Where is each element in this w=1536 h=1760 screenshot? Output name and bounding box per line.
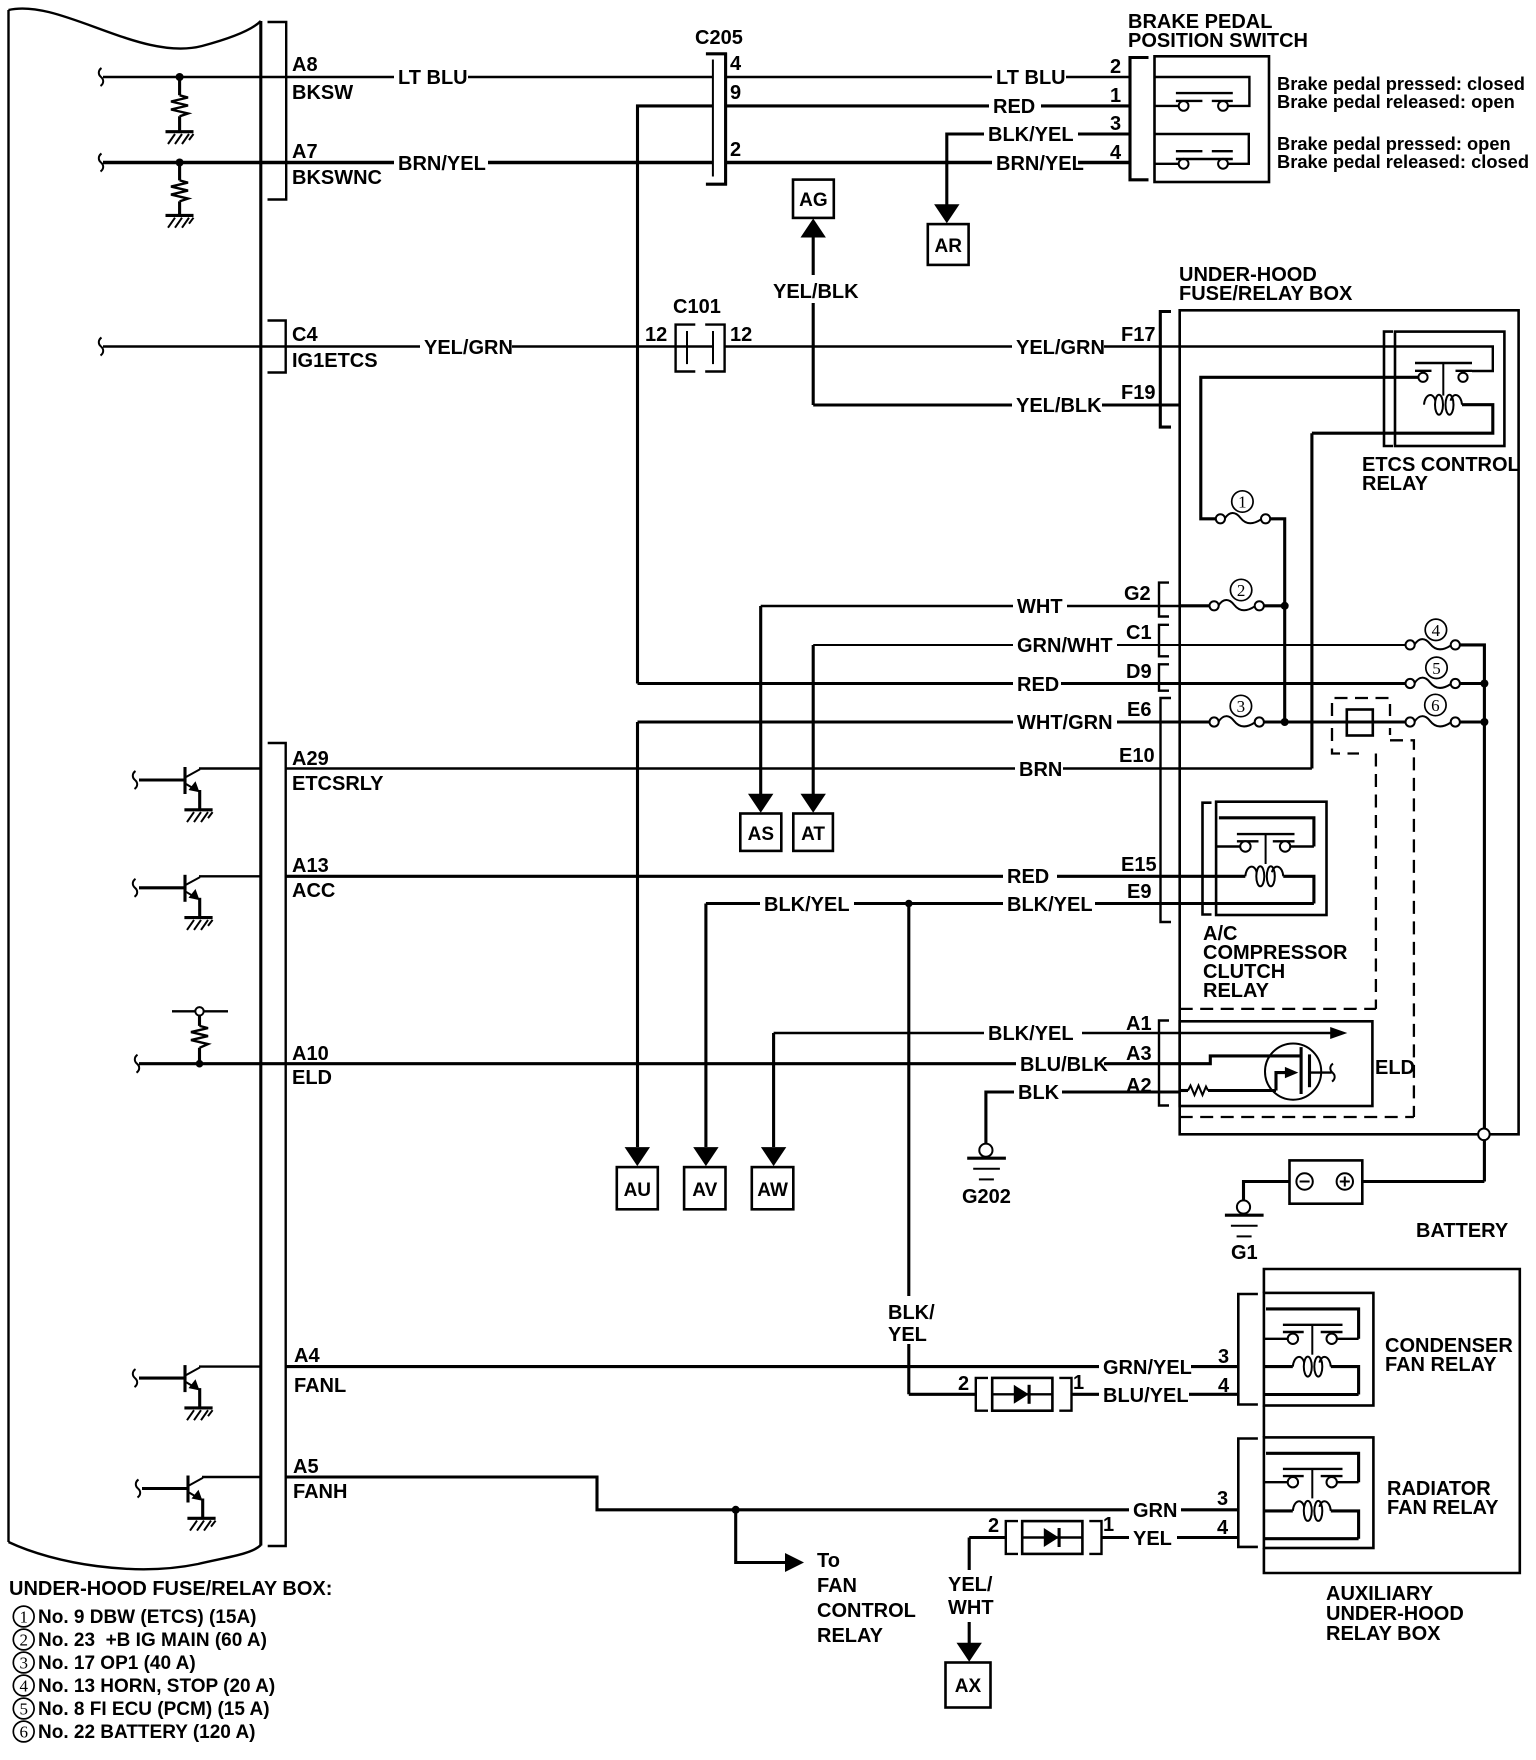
- dashed boundary right jog to ELD: [1390, 728, 1414, 1117]
- connector box AG: [793, 180, 834, 218]
- wire WHT/GRN E6 row: [638, 720, 1180, 723]
- svg-text:FAN RELAY: FAN RELAY: [1387, 1497, 1499, 1519]
- wire label YEL/GRN right: [1012, 336, 1105, 359]
- ground at A8 resistor: [166, 132, 194, 144]
- wire condenser coil right wrap to pin4: [1264, 1367, 1359, 1395]
- wire RED from C205 to brake pin 1: [727, 104, 1129, 107]
- connector C101: [676, 325, 725, 372]
- wire label BLK (A2): [1014, 1082, 1062, 1104]
- svg-text:2: 2: [988, 1515, 999, 1537]
- legend item 6: No. 22 BATTERY (120 A): [13, 1721, 255, 1743]
- condenser relay coil: [1293, 1357, 1331, 1377]
- circled 2 fuse label: [1230, 579, 1251, 600]
- wire label RED (E15): [1003, 866, 1057, 888]
- diode D2 module: [1006, 1521, 1102, 1554]
- wire label YEL/GRN left: [420, 336, 513, 359]
- wire fuse2 out: [1264, 604, 1285, 607]
- ground G202: [967, 1144, 1006, 1180]
- svg-text:2: 2: [958, 1373, 969, 1395]
- ground G1: [1225, 1200, 1264, 1236]
- svg-text:1: 1: [19, 1608, 28, 1627]
- radiator fan relay box: [1264, 1437, 1374, 1548]
- svg-text:YEL/BLK: YEL/BLK: [773, 281, 859, 303]
- wire A4 FANL to condenser relay pin3 GRN/YEL: [286, 1365, 1239, 1368]
- svg-text:12: 12: [730, 324, 752, 346]
- svg-text:AS: AS: [748, 824, 774, 845]
- svg-text:1: 1: [1103, 1514, 1114, 1536]
- wire label RED (D9): [1013, 673, 1061, 696]
- svg-text:D9: D9: [1126, 661, 1152, 683]
- wire BLK/YEL A1 row: [774, 1032, 1180, 1034]
- wire GRN/WHT C1 row: [813, 644, 1179, 646]
- wire fuse5 out: [1460, 682, 1485, 685]
- svg-text:E6: E6: [1127, 699, 1151, 721]
- circled 3 fuse label: [1230, 695, 1251, 716]
- ELD A2 wire with resistor: [1180, 1086, 1276, 1096]
- wire label YEL: [1129, 1527, 1177, 1550]
- svg-text:1: 1: [1110, 85, 1121, 107]
- wire label BLU/BLK (A3): [1016, 1053, 1108, 1076]
- svg-text:G202: G202: [962, 1186, 1011, 1208]
- wire RED C205 pin9 to D9 corner vertical: [638, 106, 713, 684]
- wire label GRN/WHT: [1013, 635, 1117, 657]
- svg-text:To: To: [817, 1550, 840, 1572]
- svg-text:F17: F17: [1121, 324, 1155, 346]
- dashed boundary A/C relay bottom: [1180, 1008, 1376, 1010]
- wire RED A13 ACC to E15: [286, 875, 1216, 878]
- wire C1 row to fuse 4: [1180, 644, 1406, 646]
- svg-text:POSITION SWITCH: POSITION SWITCH: [1128, 30, 1308, 52]
- svg-text:RELAY BOX: RELAY BOX: [1326, 1623, 1441, 1645]
- svg-text:3: 3: [1110, 113, 1121, 135]
- label CONDENSER FAN RELAY: [1385, 1335, 1513, 1376]
- junction dot fuse3/bus: [1281, 718, 1289, 726]
- svg-text:AR: AR: [934, 236, 962, 257]
- svg-text:2: 2: [730, 139, 741, 161]
- wire A10 pin stub: [139, 1062, 286, 1065]
- wire vertical to AU: [636, 722, 639, 1147]
- resistor pull-up at A7: [171, 159, 188, 215]
- svg-text:A13: A13: [292, 855, 329, 877]
- svg-text:BLK/YEL: BLK/YEL: [988, 1023, 1074, 1045]
- svg-text:No. 17 OP1 (40 A): No. 17 OP1 (40 A): [38, 1653, 196, 1674]
- wire label BRN: [1015, 758, 1063, 781]
- svg-text:A4: A4: [294, 1345, 320, 1367]
- svg-text:RELAY: RELAY: [1203, 980, 1270, 1002]
- transistor Q4 at A5: [136, 1476, 261, 1531]
- wire label YEL/ WHT: [948, 1574, 994, 1619]
- diode D1 module: [976, 1378, 1072, 1411]
- svg-text:RELAY: RELAY: [817, 1625, 884, 1647]
- radiator relay contact top bar: [1266, 1453, 1359, 1482]
- legend item 5: No. 8 FI ECU (PCM) (15 A): [13, 1698, 269, 1720]
- connector bracket F17/F19: [1160, 312, 1171, 428]
- pin tick A8: [99, 68, 103, 86]
- connector bracket A8/A7: [268, 22, 287, 200]
- wire E10 row to coil vertical: [1180, 767, 1312, 769]
- svg-text:WHT/GRN: WHT/GRN: [1017, 712, 1113, 734]
- svg-text:No. 23 +B IG MAIN (60 A): No. 23 +B IG MAIN (60 A): [38, 1630, 267, 1651]
- svg-text:GRN/YEL: GRN/YEL: [1103, 1357, 1192, 1379]
- wire vertical to AW: [772, 1033, 775, 1147]
- svg-text:YEL: YEL: [1133, 1528, 1172, 1550]
- wire fuse1 out to bus vertical: [1270, 519, 1285, 722]
- condenser relay contact top bar: [1266, 1309, 1359, 1339]
- arrowhead into AS: [748, 794, 773, 813]
- arrowhead into AR: [934, 204, 959, 223]
- ELD gate wire A3: [1180, 1056, 1300, 1064]
- wire ETCS coil right wrap to E10 vertical: [1312, 405, 1493, 769]
- svg-text:IG1ETCS: IG1ETCS: [292, 350, 378, 372]
- connector box AR: [928, 224, 969, 265]
- svg-text:5: 5: [1432, 659, 1441, 678]
- svg-text:C205: C205: [695, 27, 743, 49]
- transistor Q2 at A13: [133, 875, 261, 930]
- svg-text:A1: A1: [1126, 1013, 1152, 1035]
- svg-text:AG: AG: [799, 190, 828, 211]
- connector bracket C4: [268, 321, 286, 373]
- svg-text:Brake pedal released: closed: Brake pedal released: closed: [1277, 151, 1529, 172]
- wire A/C coil left lead (E15): [1216, 875, 1245, 878]
- svg-text:AW: AW: [757, 1180, 788, 1201]
- svg-text:E9: E9: [1127, 881, 1151, 903]
- legend item 3: No. 17 OP1 (40 A): [13, 1652, 195, 1674]
- wire label BLK/YEL (E9 right): [1003, 893, 1095, 916]
- svg-text:A29: A29: [292, 748, 329, 770]
- svg-text:C1: C1: [1126, 622, 1152, 644]
- svg-text:No. 22 BATTERY (120 A): No. 22 BATTERY (120 A): [38, 1722, 256, 1743]
- svg-text:3: 3: [19, 1654, 28, 1673]
- legend item 1: No. 9 DBW (ETCS) (15A): [13, 1606, 256, 1628]
- wire YEL/GRN C101 to F17: [725, 345, 1180, 347]
- svg-text:YEL: YEL: [888, 1324, 927, 1346]
- svg-text:FANH: FANH: [293, 1481, 347, 1503]
- fuse 1: [1216, 513, 1270, 523]
- svg-text:YEL/GRN: YEL/GRN: [1016, 337, 1105, 359]
- svg-text:6: 6: [1431, 696, 1440, 715]
- svg-text:UNDER-HOOD FUSE/RELAY BOX:: UNDER-HOOD FUSE/RELAY BOX:: [9, 1578, 332, 1600]
- wire A7 BKSWNC / BRN/YEL row: [103, 161, 713, 165]
- svg-text:BRN/YEL: BRN/YEL: [398, 153, 486, 175]
- arrow + wire YEL/BLK up to AG: [801, 219, 826, 406]
- fuse 3: [1210, 716, 1264, 726]
- wire diode D2 to radiator relay pin4: [1102, 1536, 1239, 1539]
- svg-text:3: 3: [1237, 697, 1246, 716]
- svg-text:WHT: WHT: [948, 1597, 994, 1619]
- circled 4 fuse label: [1425, 619, 1446, 640]
- dashed boundary upper square box: [1332, 698, 1390, 716]
- junction dot fuse5/battery bus: [1480, 680, 1488, 688]
- svg-text:GRN: GRN: [1133, 1500, 1177, 1522]
- svg-text:BLK/YEL: BLK/YEL: [1007, 894, 1093, 916]
- svg-text:RED: RED: [1007, 866, 1049, 888]
- label BRAKE PEDAL POSITION SWITCH: [1128, 11, 1308, 52]
- junction dot fuse2/bus: [1281, 602, 1289, 610]
- wire label YEL/BLK (F19 row): [1012, 395, 1102, 417]
- connector bracket G2: [1159, 583, 1169, 617]
- svg-text:G2: G2: [1124, 583, 1151, 605]
- ETCS relay contact set: [1415, 363, 1472, 396]
- svg-text:YEL/GRN: YEL/GRN: [424, 337, 513, 359]
- wire label WHT: [1013, 596, 1067, 618]
- svg-text:Brake pedal released: open: Brake pedal released: open: [1277, 91, 1515, 112]
- wire label GRN: [1129, 1499, 1181, 1522]
- wire BLU/YEL diode row: [909, 1393, 977, 1396]
- wire BLK/YEL brake pin 3 to AR: [947, 134, 1129, 205]
- svg-text:C101: C101: [673, 296, 721, 318]
- wire battery bus vertical: [1483, 684, 1486, 1182]
- wire YEL/WHT vertical to AX: [968, 1538, 971, 1646]
- connector bracket radiator fan relay: [1238, 1439, 1258, 1547]
- wire radiator coil left lead: [1264, 1509, 1293, 1512]
- pin tick A7: [99, 154, 103, 172]
- svg-text:4: 4: [19, 1677, 28, 1696]
- svg-text:AX: AX: [955, 1676, 982, 1697]
- fuse 2: [1210, 600, 1264, 610]
- label RADIATOR FAN RELAY: [1387, 1478, 1499, 1519]
- wire BLK/YEL vertical down to fans: [907, 904, 910, 1395]
- arrowhead into AV: [693, 1147, 718, 1166]
- arrowhead into AU: [625, 1147, 650, 1166]
- switch S2 (pins 3-4) internals: [1155, 134, 1249, 169]
- dashed boundary lower-left to A/C relay: [1332, 728, 1359, 754]
- connector bracket D9: [1159, 664, 1169, 690]
- svg-text:RELAY: RELAY: [1362, 473, 1429, 495]
- wire label WHT/GRN: [1013, 711, 1117, 734]
- junction dot fan control branch: [732, 1506, 740, 1514]
- svg-text:BATTERY: BATTERY: [1416, 1220, 1509, 1242]
- battery: [1290, 1160, 1363, 1203]
- svg-text:CONTROL: CONTROL: [817, 1600, 916, 1622]
- svg-text:AV: AV: [692, 1180, 717, 1201]
- wire label GRN/YEL: [1099, 1356, 1192, 1379]
- wire YEL/WHT to diode D2: [969, 1536, 1007, 1539]
- circled 1 fuse label: [1232, 491, 1253, 512]
- svg-text:BKSW: BKSW: [292, 82, 353, 104]
- ETCS relay coil: [1424, 395, 1462, 415]
- wire E6 row to fuse 3: [1180, 720, 1210, 723]
- wire label LT BLU right: [992, 67, 1066, 89]
- svg-text:G1: G1: [1231, 1242, 1258, 1264]
- ELD box: [1180, 1021, 1373, 1106]
- svg-text:4: 4: [1217, 1517, 1229, 1539]
- svg-text:ELD: ELD: [1375, 1057, 1415, 1079]
- radiator relay coil: [1293, 1501, 1331, 1521]
- A/C compressor clutch relay box: [1216, 802, 1326, 915]
- connector box AU: [617, 1167, 658, 1209]
- label A/C COMPRESSOR CLUTCH RELAY: [1203, 923, 1348, 1002]
- svg-text:E10: E10: [1119, 745, 1155, 767]
- svg-text:BRN: BRN: [1019, 759, 1062, 781]
- legend item 2: No. 23 +B IG MAIN (60 A): [13, 1629, 267, 1651]
- circled 6 fuse label: [1425, 694, 1446, 715]
- ETCS control relay box: [1395, 332, 1504, 446]
- fuse 6: [1406, 716, 1460, 726]
- wire label LT BLU left: [394, 67, 468, 89]
- svg-text:F19: F19: [1121, 382, 1155, 404]
- radiator relay contact set: [1264, 1469, 1359, 1499]
- ground at A7 resistor: [166, 215, 194, 227]
- svg-text:4: 4: [1432, 621, 1441, 640]
- label AUXILIARY UNDER-HOOD RELAY BOX: [1326, 1583, 1464, 1645]
- wire BLU/BLK A10 ELD to A3: [286, 1062, 1180, 1065]
- wire fuse3 out to fuse6 through square: [1263, 720, 1405, 723]
- junction dot E9/BLK-YEL branch: [905, 900, 913, 908]
- wire label BLK/YEL (E9 left): [760, 893, 854, 916]
- wire D9 row to fuse 5: [1180, 682, 1406, 685]
- fuse 5: [1406, 678, 1460, 688]
- svg-text:ETCSRLY: ETCSRLY: [292, 773, 384, 795]
- transistor Q1 at A29: [133, 767, 261, 822]
- wire RED D9 row: [638, 682, 1180, 685]
- svg-text:LT BLU: LT BLU: [398, 67, 468, 89]
- svg-text:FANL: FANL: [294, 1375, 346, 1397]
- connector box AS: [740, 814, 781, 851]
- switch S1 (pins 2-1) internals: [1155, 77, 1250, 111]
- svg-text:2: 2: [19, 1631, 28, 1650]
- resistor sense at A10 with terminal: [172, 1007, 228, 1067]
- svg-text:BLK/YEL: BLK/YEL: [988, 124, 1074, 146]
- PCM/ECM block torn outline (left): [9, 8, 261, 1569]
- connector box AX: [946, 1663, 991, 1708]
- connector box AT: [793, 814, 833, 851]
- svg-text:UNDER-HOOD: UNDER-HOOD: [1326, 1603, 1464, 1625]
- wire fuse6 out: [1460, 720, 1485, 723]
- resistor pull-up at A8: [171, 73, 188, 131]
- junction dot fuse6/battery bus: [1480, 718, 1488, 726]
- wire LT BLU right to brake pin 2: [727, 76, 1129, 78]
- A/C relay contact top bar: [1219, 818, 1314, 847]
- svg-text:BRN/YEL: BRN/YEL: [996, 153, 1084, 175]
- wire A8 BKSW / LT BLU row: [103, 76, 713, 78]
- svg-text:C4: C4: [292, 324, 318, 346]
- svg-text:GRN/WHT: GRN/WHT: [1017, 635, 1113, 657]
- svg-text:BLU/BLK: BLU/BLK: [1020, 1054, 1108, 1076]
- svg-text:A3: A3: [1126, 1043, 1152, 1065]
- label UNDER-HOOD FUSE/RELAY BOX: [1179, 264, 1353, 305]
- svg-text:E15: E15: [1121, 854, 1157, 876]
- A/C compressor clutch relay connector bracket: [1203, 803, 1212, 915]
- svg-text:No. 13 HORN, STOP (20 A): No. 13 HORN, STOP (20 A): [38, 1676, 275, 1697]
- wire BLK/YEL E9 row: [706, 902, 1216, 905]
- svg-text:3: 3: [1217, 1488, 1228, 1510]
- wire YEL/BLK row to F19: [813, 403, 1179, 406]
- arrowhead into AX: [957, 1643, 982, 1662]
- wire F17 feed to relay contact (wrap): [1180, 347, 1493, 372]
- legend item 4: No. 13 HORN, STOP (20 A): [13, 1675, 275, 1697]
- fuse 4: [1406, 639, 1460, 649]
- pin tick A10: [135, 1055, 139, 1073]
- svg-text:WHT: WHT: [1017, 596, 1063, 618]
- connector bracket condenser fan relay: [1238, 1294, 1258, 1405]
- wire A5 FANH with jog down: [286, 1477, 1239, 1510]
- svg-text:ACC: ACC: [292, 880, 335, 902]
- condenser fan relay box: [1264, 1293, 1374, 1406]
- svg-text:A2: A2: [1126, 1075, 1152, 1097]
- wire battery negative to G1: [1244, 1182, 1290, 1201]
- svg-text:AT: AT: [801, 824, 825, 845]
- note text brake switch states: [1277, 73, 1529, 172]
- label ETCS CONTROL RELAY: [1362, 454, 1520, 495]
- arrowhead into AT: [801, 794, 826, 813]
- svg-text:BLK/YEL: BLK/YEL: [764, 894, 850, 916]
- wire diode D1 to condenser relay pin4: [1072, 1393, 1239, 1396]
- pin tick C4: [99, 338, 103, 356]
- dashed boundary A/C relay right side: [1375, 754, 1377, 1009]
- wire label BLK/YEL (A1): [984, 1023, 1082, 1045]
- wire ETCS contact to fuse 1: [1201, 377, 1419, 519]
- wire A/C coil right wrap to E9: [1216, 876, 1314, 903]
- open terminal circle on box bottom: [1478, 1129, 1490, 1141]
- wire vertical to AS: [759, 606, 762, 795]
- svg-text:9: 9: [730, 82, 741, 104]
- wire fuse4 out to battery bus: [1460, 645, 1485, 684]
- wire label RED: [989, 96, 1041, 118]
- svg-text:No. 9 DBW (ETCS) (15A): No. 9 DBW (ETCS) (15A): [38, 1607, 257, 1628]
- svg-text:No. 8 FI ECU (PCM) (15 A): No. 8 FI ECU (PCM) (15 A): [38, 1699, 270, 1720]
- wire BLK A2 row with G202 drop: [986, 1092, 1180, 1150]
- arrowhead into AW: [761, 1147, 786, 1166]
- wire BRN/YEL right to brake pin 4: [727, 161, 1129, 165]
- condenser relay contact set: [1264, 1325, 1359, 1355]
- svg-text:LT BLU: LT BLU: [996, 67, 1066, 89]
- svg-text:A8: A8: [292, 54, 318, 76]
- wire WHT G2 row: [761, 605, 1180, 607]
- svg-text:2: 2: [1237, 581, 1246, 600]
- wire label BLK/YEL (brake pin3): [984, 124, 1078, 146]
- wire branch to fan control relay arrow: [736, 1510, 804, 1572]
- svg-text:FAN RELAY: FAN RELAY: [1385, 1354, 1497, 1376]
- svg-text:1: 1: [1238, 493, 1247, 512]
- A/C relay coil: [1245, 866, 1283, 886]
- dashed boundary ELD bottom: [1180, 1116, 1414, 1118]
- svg-text:4: 4: [1218, 1375, 1230, 1397]
- connector bracket E6/E10/E15/E9: [1161, 698, 1172, 922]
- wire label BRN/YEL right: [992, 152, 1084, 175]
- wire vertical to AV: [704, 904, 707, 1148]
- connector box AW: [752, 1167, 794, 1209]
- wire label BLU/YEL: [1099, 1384, 1189, 1407]
- svg-text:AU: AU: [624, 1180, 651, 1201]
- connector bracket A29..A5: [268, 743, 286, 1546]
- svg-text:1: 1: [1073, 1372, 1084, 1394]
- wire BRN A29 ETCSRLY to E10: [286, 767, 1180, 769]
- svg-text:4: 4: [1110, 142, 1122, 164]
- brake pedal position switch: connector bracket: [1130, 58, 1149, 180]
- svg-text:FUSE/RELAY BOX: FUSE/RELAY BOX: [1179, 283, 1353, 305]
- wire radiator coil right wrap to pin4: [1264, 1511, 1359, 1539]
- svg-text:FAN: FAN: [817, 1575, 857, 1597]
- wire vertical to AT: [812, 645, 815, 795]
- UNDER-HOOD FUSE/RELAY BOX outline: [1180, 310, 1519, 1134]
- svg-text:A10: A10: [292, 1043, 329, 1065]
- svg-text:YEL/BLK: YEL/BLK: [1016, 395, 1102, 417]
- svg-text:BLK/: BLK/: [888, 1302, 935, 1324]
- svg-text:BLK: BLK: [1018, 1082, 1060, 1104]
- svg-text:RED: RED: [1017, 674, 1059, 696]
- wire battery positive to bus: [1362, 1180, 1484, 1183]
- wire label BLK/ YEL (vertical label): [884, 1300, 936, 1346]
- svg-text:3: 3: [1218, 1346, 1229, 1368]
- connector bracket C1: [1159, 625, 1169, 657]
- connector C205: [706, 53, 727, 186]
- wire fuse2 feed G2: [1180, 604, 1210, 607]
- svg-text:BLU/YEL: BLU/YEL: [1103, 1385, 1189, 1407]
- svg-text:YEL/: YEL/: [948, 1574, 993, 1596]
- svg-text:RED: RED: [993, 96, 1035, 118]
- bus tap square: [1347, 710, 1373, 736]
- svg-text:5: 5: [19, 1700, 28, 1719]
